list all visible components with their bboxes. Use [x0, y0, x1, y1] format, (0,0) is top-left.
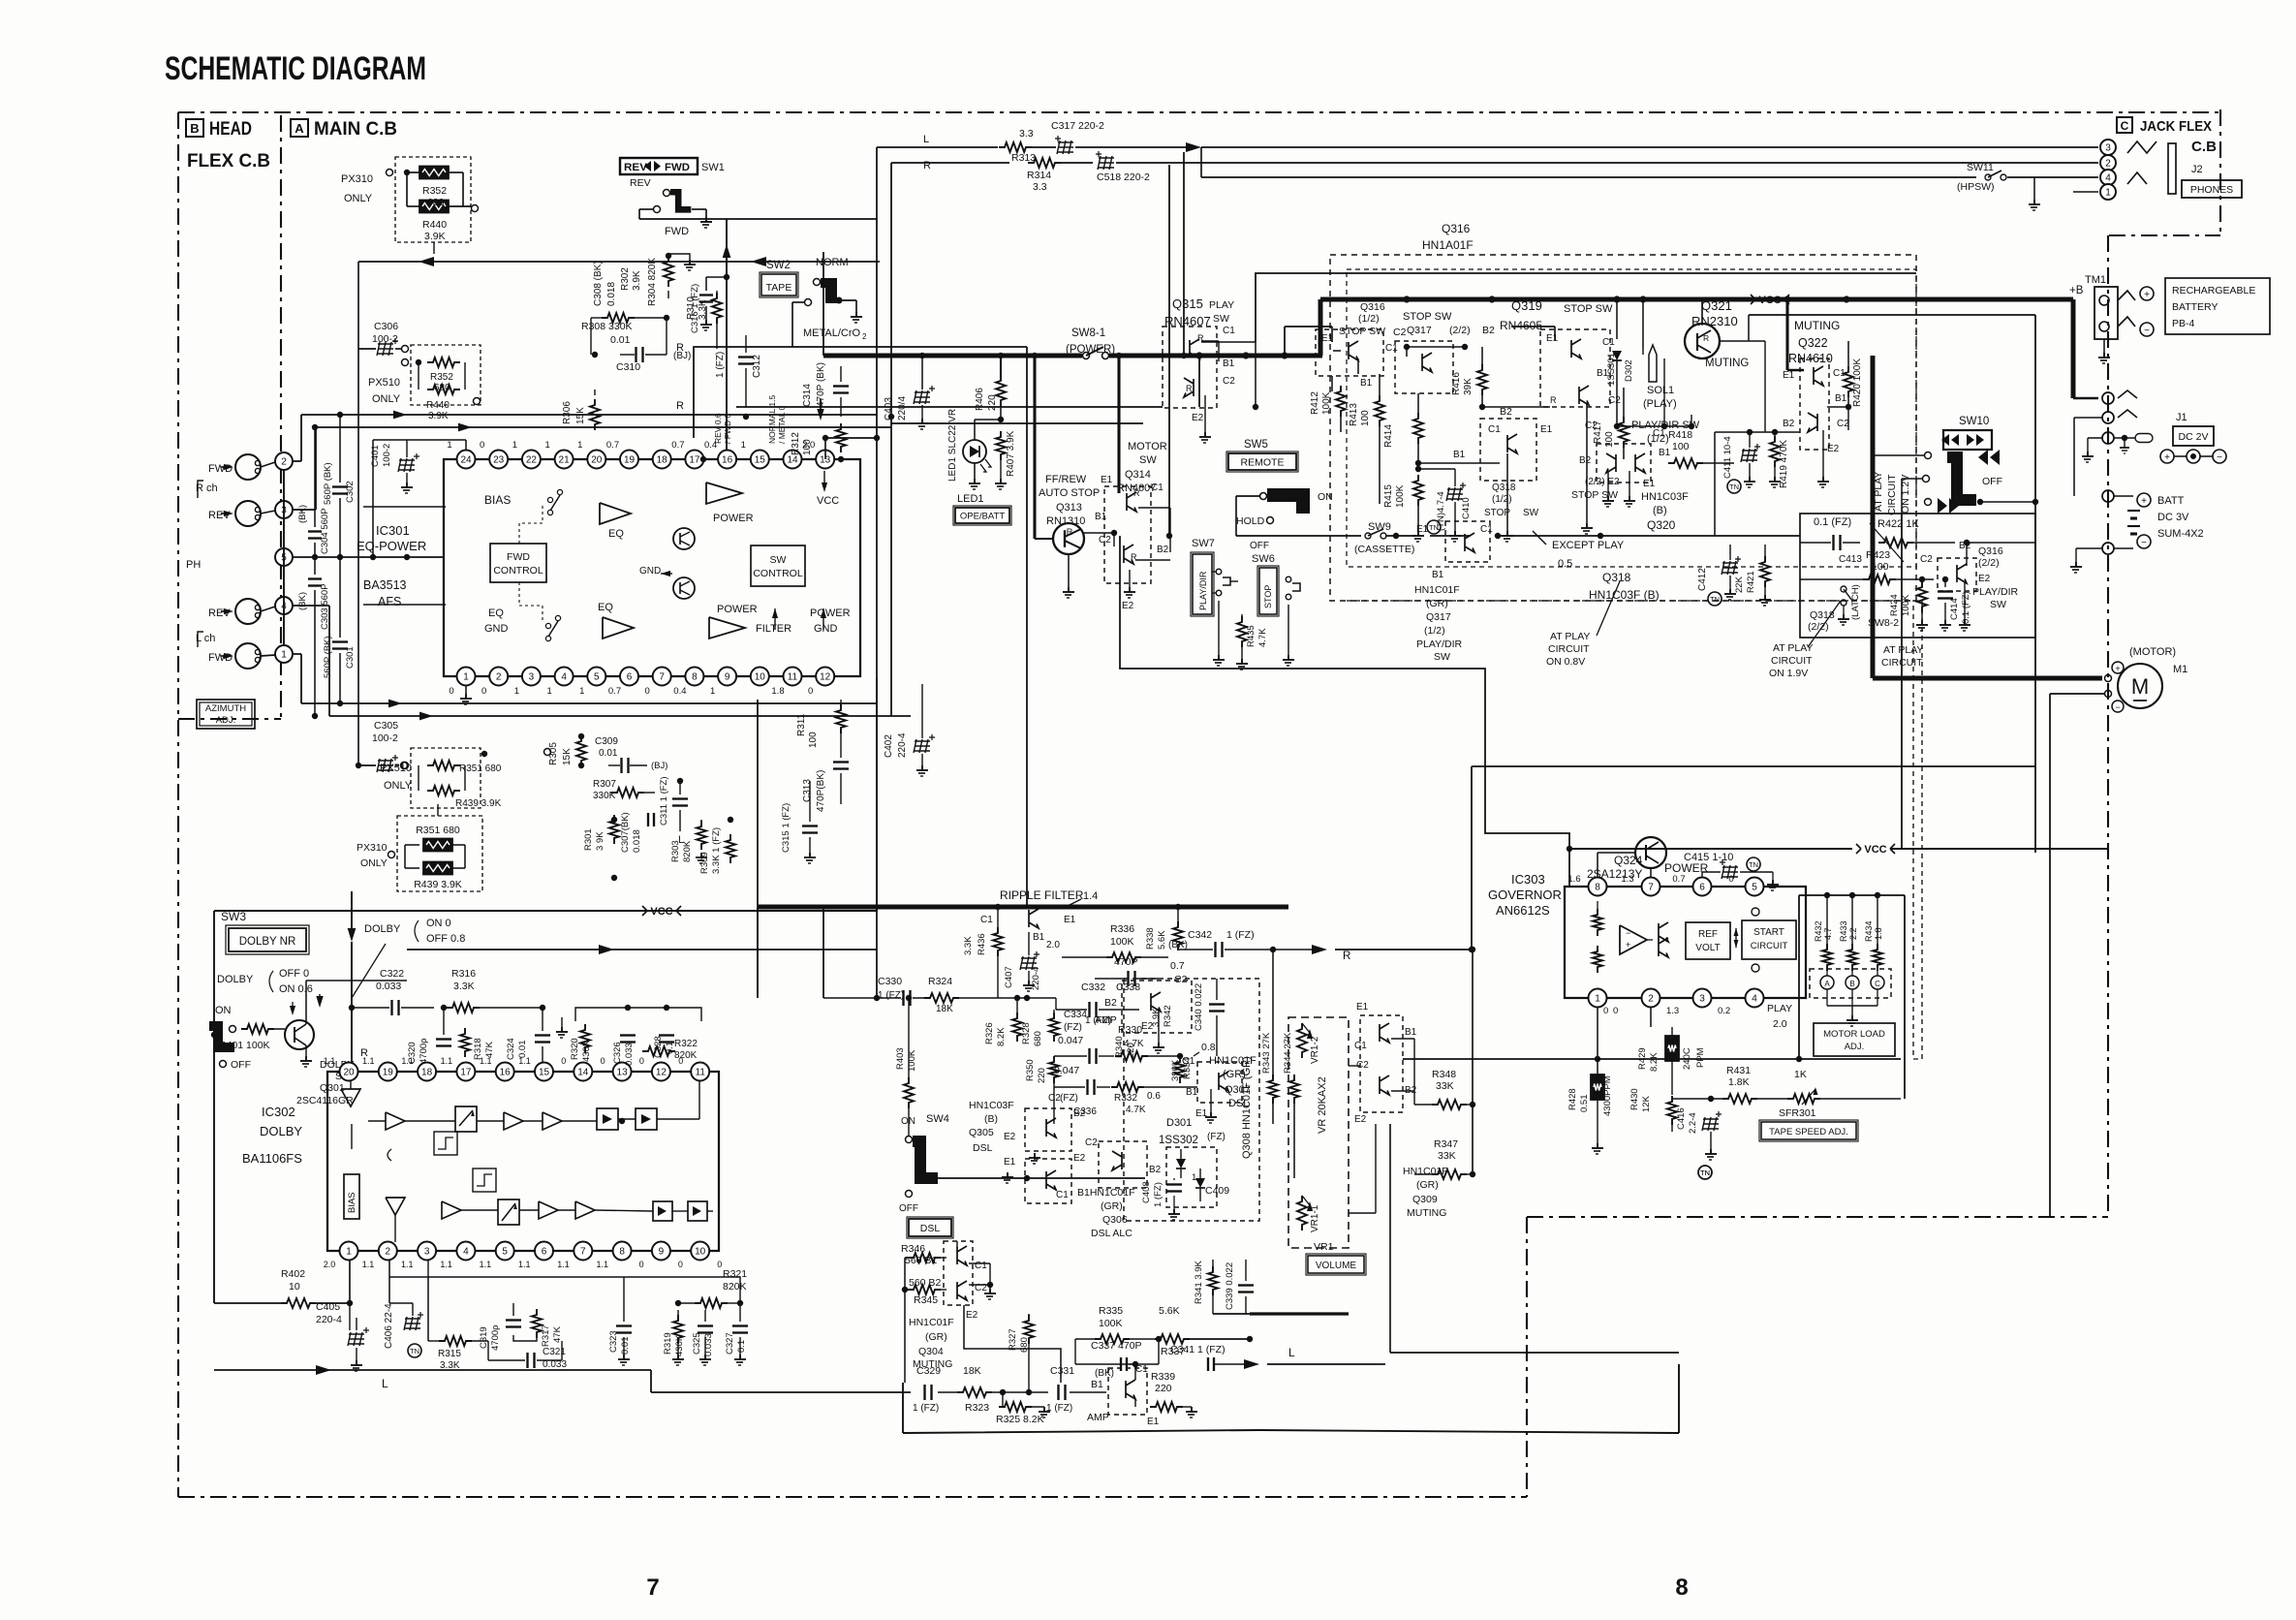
svg-text:B1: B1	[1091, 1379, 1103, 1390]
svg-text:C2: C2	[1393, 327, 1407, 338]
svg-text:R431: R431	[1726, 1065, 1751, 1076]
svg-text:B: B	[1849, 980, 1854, 988]
svg-text:4.7K: 4.7K	[1124, 1039, 1144, 1049]
wire x1520 vertical to y1093	[1472, 950, 1474, 1105]
svg-text:0.5: 0.5	[1558, 558, 1572, 570]
svg-text:RN4605: RN4605	[1500, 319, 1542, 332]
svg-text:(CASSETTE): (CASSETTE)	[1354, 544, 1414, 555]
svg-text:STOP SW: STOP SW	[1564, 303, 1613, 315]
IC302 internal wires lower	[351, 1174, 353, 1182]
svg-text:C325: C325	[692, 1332, 702, 1355]
svg-text:+: +	[2141, 496, 2147, 507]
svg-text:B1: B1	[1405, 1027, 1417, 1038]
VCC bracket top	[1751, 295, 1789, 304]
svg-text:Q317: Q317	[1407, 325, 1432, 336]
svg-text:19: 19	[624, 455, 636, 466]
svg-text:8: 8	[692, 672, 698, 683]
svg-text:(BK): (BK)	[297, 505, 308, 523]
svg-text:B1: B1	[1033, 932, 1045, 943]
svg-text:C2: C2	[1837, 419, 1849, 429]
svg-text:L: L	[382, 1377, 388, 1390]
svg-text:SW3: SW3	[221, 910, 246, 923]
svg-text:0.033: 0.033	[376, 981, 401, 992]
svg-text:ONLY: ONLY	[372, 393, 401, 405]
cap C304 560P	[314, 427, 316, 527]
svg-text:(LATCH): (LATCH)	[1850, 584, 1861, 620]
svg-text:220-4: 220-4	[1031, 967, 1041, 990]
svg-text:3.9K: 3.9K	[632, 270, 642, 291]
svg-text:REV: REV	[624, 162, 648, 173]
svg-text:560 B2: 560 B2	[909, 1277, 941, 1289]
svg-text:1: 1	[2105, 188, 2111, 199]
svg-text:13: 13	[617, 1068, 629, 1078]
svg-text:15: 15	[755, 455, 766, 466]
svg-text:A: A	[295, 121, 304, 136]
switch SW1 REV-FWD label box	[620, 158, 698, 174]
wire Q315 C1 right	[1201, 341, 1256, 343]
svg-text:C1: C1	[1385, 343, 1398, 354]
connector circles on board edge (DC jack chain)	[2102, 392, 2114, 404]
svg-text:0.01: 0.01	[610, 334, 631, 346]
cap C410 4.7-4	[1446, 483, 1466, 501]
svg-text:3.3K 1 (FZ): 3.3K 1 (FZ)	[711, 827, 722, 874]
svg-text:SW7: SW7	[1192, 538, 1215, 549]
svg-text:0.1 (FZ): 0.1 (FZ)	[1961, 591, 1971, 624]
svg-text:R423: R423	[1866, 549, 1890, 561]
svg-text:1SS302: 1SS302	[1159, 1135, 1198, 1146]
svg-text:220: 220	[1037, 1068, 1047, 1083]
svg-text:R439 3.9K: R439 3.9K	[414, 879, 462, 890]
svg-text:R327: R327	[1008, 1328, 1018, 1351]
svg-text:C518 220-2: C518 220-2	[1097, 171, 1150, 183]
svg-text:20: 20	[591, 455, 603, 466]
svg-text:Q319: Q319	[1511, 298, 1542, 313]
svg-text:100: 100	[802, 439, 813, 455]
svg-text:4700ρ: 4700ρ	[419, 1038, 429, 1064]
svg-text:E2: E2	[966, 1310, 978, 1321]
svg-text:ON 1.9V: ON 1.9V	[1769, 668, 1808, 679]
svg-text:820K: 820K	[674, 1050, 698, 1061]
switch SW8-2 LATCH	[1841, 586, 1846, 592]
svg-text:C302: C302	[345, 481, 356, 503]
svg-text:B1: B1	[1360, 378, 1373, 389]
svg-text:HEAD: HEAD	[209, 119, 252, 140]
wire L out arrow	[1244, 1359, 1259, 1369]
solenoid SOL1 PLAY	[1642, 299, 1644, 349]
svg-text:430K: 430K	[674, 1334, 685, 1356]
svg-text:CIRCUIT: CIRCUIT	[1548, 643, 1590, 655]
svg-text:R304 820K: R304 820K	[647, 258, 658, 306]
svg-text:C303 560P: C303 560P	[320, 583, 330, 630]
svg-text:C310: C310	[616, 361, 640, 373]
R line arrow to right	[407, 949, 877, 950]
resistor R419 470K	[1770, 436, 1780, 467]
svg-text:Q304: Q304	[918, 1346, 944, 1357]
IC302 pins top 20..11	[340, 1063, 358, 1081]
svg-text:(FZ): (FZ)	[1060, 1093, 1078, 1104]
IC303 pins top 8 7 6 5	[1589, 878, 1607, 896]
wire long feedback line y270	[358, 261, 880, 263]
resistor R322 820K	[642, 1046, 675, 1056]
svg-text:R302: R302	[620, 267, 631, 291]
svg-text:9: 9	[659, 1247, 665, 1258]
switch SW9 CASSETTE	[1236, 535, 1361, 537]
svg-text:AT PLAY: AT PLAY	[1883, 644, 1923, 656]
svg-text:R328: R328	[1021, 1022, 1032, 1044]
svg-text:PLAY: PLAY	[1767, 1003, 1792, 1014]
wire hline y1093	[1403, 1058, 1901, 1060]
svg-text:/ FWD 0: / FWD 0	[723, 414, 732, 444]
svg-text:AUTO STOP: AUTO STOP	[1039, 487, 1100, 499]
svg-text:Q301: Q301	[320, 1082, 345, 1094]
svg-text:C406 22-4: C406 22-4	[384, 1303, 394, 1349]
svg-text:R330: R330	[1118, 1024, 1142, 1036]
wire top to IC303 area	[1472, 765, 2035, 767]
ground pin1 IC301	[465, 686, 467, 694]
svg-text:18: 18	[421, 1068, 433, 1078]
svg-text:2.0: 2.0	[1046, 940, 1060, 950]
IC302 internal symbols lower row	[386, 1198, 405, 1215]
svg-text:B1: B1	[1186, 1087, 1198, 1098]
svg-text:HN1C01F: HN1C01F	[909, 1317, 954, 1328]
svg-text:R345: R345	[914, 1294, 938, 1306]
wire rail branch down at x1238	[1198, 356, 1200, 407]
junction TN circle	[1698, 1166, 1712, 1179]
svg-text:680: 680	[434, 383, 450, 393]
svg-text:4.7: 4.7	[1823, 927, 1833, 940]
IC301 EQ amp lower	[603, 617, 634, 639]
thick rail to motor	[1871, 356, 1876, 678]
svg-text:AFS: AFS	[378, 595, 401, 608]
svg-text:100: 100	[1360, 410, 1371, 426]
svg-text:JACK FLEX: JACK FLEX	[2140, 118, 2212, 135]
svg-text:1 (FZ): 1 (FZ)	[1226, 929, 1255, 941]
svg-text:560P (BK): 560P (BK)	[323, 636, 333, 678]
IC302 antenna stub	[351, 1124, 353, 1149]
svg-text:POWER: POWER	[713, 513, 754, 524]
svg-text:−: −	[1626, 928, 1630, 938]
svg-text:6: 6	[627, 672, 633, 683]
svg-text:CIRCUIT: CIRCUIT	[1771, 655, 1813, 667]
svg-text:0: 0	[480, 440, 484, 451]
svg-text:MOTOR LOAD: MOTOR LOAD	[1823, 1029, 1885, 1040]
svg-text:PLAY/DIR: PLAY/DIR	[1972, 586, 2018, 598]
svg-text:C.B: C.B	[2191, 139, 2217, 155]
svg-text:C322: C322	[380, 968, 404, 980]
svg-text:C401: C401	[370, 445, 381, 467]
svg-text:STOP: STOP	[1263, 585, 1273, 608]
svg-text:R306: R306	[562, 401, 573, 424]
section label C JACK FLEX C.B	[2117, 117, 2132, 133]
svg-text:1 (FZ): 1 (FZ)	[1046, 1403, 1072, 1414]
svg-text:0: 0	[449, 686, 453, 697]
svg-text:Q324: Q324	[1614, 854, 1643, 867]
svg-text:560P (BK): 560P (BK)	[323, 462, 333, 505]
dolby box bottom right vertical	[876, 678, 878, 911]
svg-text:VR1-1: VR1-1	[1310, 1204, 1320, 1232]
svg-text:2: 2	[2105, 159, 2111, 170]
svg-text:4.7K: 4.7K	[1126, 1105, 1146, 1115]
svg-text:R347: R347	[1434, 1138, 1458, 1150]
transistor Q301 dolby sw	[285, 1020, 314, 1049]
svg-text:ON 0: ON 0	[426, 918, 451, 929]
svg-text:19: 19	[383, 1068, 394, 1078]
resistor R318 47K	[460, 1028, 470, 1057]
svg-text:R428: R428	[1567, 1088, 1578, 1110]
svg-text:R341 3.9K: R341 3.9K	[1194, 1260, 1204, 1304]
svg-text:REF: REF	[1698, 929, 1718, 940]
svg-text:HN1C03F: HN1C03F	[969, 1100, 1014, 1111]
svg-text:3: 3	[1699, 994, 1705, 1005]
svg-text:PX510: PX510	[368, 377, 400, 389]
ground Q322 E2	[1822, 430, 1824, 477]
svg-text:STOP SW: STOP SW	[1571, 489, 1618, 501]
svg-text:GND: GND	[639, 566, 661, 576]
svg-text:IC301: IC301	[376, 523, 410, 538]
svg-text:OFF: OFF	[231, 1059, 251, 1071]
long line y420 from IC301 to Q315	[877, 406, 1163, 408]
svg-text:0: 0	[1603, 1006, 1608, 1016]
svg-text:0: 0	[639, 1260, 644, 1269]
svg-text:(GR): (GR)	[1426, 598, 1448, 609]
svg-text:C317 220-2: C317 220-2	[1051, 120, 1104, 132]
cap C302 560P(BK)	[339, 415, 341, 483]
svg-text:SW: SW	[1434, 651, 1450, 663]
svg-text:L ch: L ch	[196, 633, 215, 644]
svg-text:PX310: PX310	[341, 173, 373, 185]
svg-text:B2: B2	[1104, 997, 1117, 1009]
svg-text:1.3: 1.3	[1666, 1006, 1679, 1016]
svg-text:R436: R436	[977, 933, 987, 955]
dashed outline Q318 HN1C03F lower	[1347, 600, 1916, 602]
svg-text:R322: R322	[674, 1039, 698, 1049]
IC301 EQ amp upper	[600, 503, 631, 524]
svg-text:DOLBY: DOLBY	[364, 923, 401, 935]
long vertical x850 power	[822, 252, 824, 356]
svg-text:EXCEPT PLAY: EXCEPT PLAY	[1552, 540, 1625, 551]
svg-text:R352: R352	[422, 185, 447, 197]
svg-text:23: 23	[493, 455, 505, 466]
svg-text:1: 1	[514, 686, 519, 697]
cap C325 0.033	[698, 1324, 713, 1326]
svg-text:SOL1: SOL1	[1647, 385, 1674, 396]
svg-text:0.6: 0.6	[1147, 1091, 1161, 1102]
svg-text:VCC: VCC	[817, 495, 839, 507]
svg-text:Q318: Q318	[1602, 571, 1631, 584]
svg-text:ADJ.: ADJ.	[1845, 1042, 1865, 1052]
svg-text:Q316: Q316	[1360, 301, 1385, 313]
svg-text:VR 20KAX2: VR 20KAX2	[1317, 1076, 1328, 1134]
svg-text:C306: C306	[374, 321, 398, 332]
svg-text:C1: C1	[1602, 337, 1615, 348]
svg-text:R401 100K: R401 100K	[219, 1040, 270, 1051]
wire FWD down to IC301 pin16	[726, 219, 728, 459]
svg-text:TAPE: TAPE	[766, 282, 792, 294]
svg-text:GOVERNOR: GOVERNOR	[1488, 888, 1562, 902]
svg-text:R403: R403	[895, 1047, 906, 1070]
svg-text:C1: C1	[1151, 483, 1164, 493]
IC302 pins bottom 1..10	[340, 1242, 358, 1261]
resistor R319 430K	[673, 1315, 683, 1344]
svg-text:12: 12	[656, 1068, 667, 1078]
vertical pair x1207 x1222	[1168, 165, 1170, 536]
svg-text:M: M	[2131, 674, 2149, 699]
svg-text:TN: TN	[1729, 483, 1739, 491]
audio box bottom edge	[903, 1430, 1679, 1433]
svg-text:R407 3.9K: R407 3.9K	[1006, 430, 1016, 477]
svg-text:10: 10	[695, 1247, 706, 1258]
svg-text:3: 3	[424, 1247, 430, 1258]
svg-text:1: 1	[447, 440, 451, 451]
svg-text:(1/2): (1/2)	[1647, 433, 1669, 445]
svg-text:C410: C410	[1461, 497, 1472, 519]
svg-text:C342: C342	[1188, 929, 1212, 941]
svg-text:3 9K: 3 9K	[595, 831, 605, 851]
svg-text:B2: B2	[1149, 1165, 1162, 1175]
svg-text:R424: R424	[1889, 594, 1900, 616]
svg-text:C332: C332	[1081, 981, 1105, 993]
svg-text:B1: B1	[1453, 450, 1466, 460]
svg-text:C331: C331	[1050, 1365, 1074, 1377]
battery BATT DC 3V SUM-4X2	[2137, 493, 2151, 507]
svg-text:1: 1	[512, 440, 517, 451]
svg-text:B1: B1	[1432, 570, 1444, 580]
svg-text:5: 5	[594, 672, 600, 683]
svg-text:TAPE SPEED ADJ.: TAPE SPEED ADJ.	[1769, 1127, 1848, 1137]
svg-text:C2: C2	[1920, 554, 1933, 565]
svg-text:C: C	[2121, 119, 2129, 133]
svg-text:R325 8.2K: R325 8.2K	[996, 1414, 1044, 1425]
svg-text:1: 1	[346, 1247, 352, 1258]
svg-text:0.7: 0.7	[1672, 874, 1685, 885]
svg-text:470P: 470P	[1114, 956, 1138, 968]
IC302 internal symbols upper row	[341, 1089, 360, 1106]
svg-text:C412: C412	[1697, 568, 1708, 591]
svg-text:FWD: FWD	[665, 226, 689, 237]
svg-text:220-4: 220-4	[316, 1314, 342, 1325]
svg-text:17: 17	[689, 455, 700, 466]
svg-text:TN: TN	[410, 1347, 419, 1355]
svg-text:REV: REV	[630, 177, 651, 189]
svg-text:E1: E1	[1004, 1157, 1016, 1168]
jack flex connector circles	[2100, 140, 2116, 155]
svg-text:BATT: BATT	[2157, 495, 2185, 507]
svg-text:C408: C408	[1141, 1181, 1152, 1203]
svg-text:8: 8	[619, 1247, 625, 1258]
svg-text:0.047: 0.047	[1058, 1035, 1083, 1046]
junction dots near IC301	[592, 352, 598, 358]
svg-text:ONLY: ONLY	[360, 857, 388, 869]
svg-text:ADJ.: ADJ.	[216, 715, 236, 726]
resistor R401 100K	[241, 1024, 274, 1034]
svg-text:R: R	[1550, 395, 1557, 405]
svg-text:(MOTOR): (MOTOR)	[2129, 646, 2176, 658]
svg-text:DOLBY: DOLBY	[260, 1124, 302, 1138]
svg-text:C309: C309	[595, 736, 618, 747]
svg-text:R ch: R ch	[196, 483, 218, 494]
svg-text:C311 1 (FZ): C311 1 (FZ)	[659, 776, 669, 826]
IC303 pins bottom 1 2 3 4	[1589, 989, 1607, 1008]
cap C321 0.033	[526, 1353, 528, 1368]
svg-text:E2: E2	[1192, 413, 1204, 423]
svg-text:POWER: POWER	[717, 604, 758, 615]
svg-text:E1: E1	[1101, 475, 1113, 485]
svg-text:FLEX C.B: FLEX C.B	[187, 151, 270, 171]
svg-text:OFF: OFF	[1982, 476, 2002, 487]
svg-text:20: 20	[343, 1068, 355, 1078]
svg-text:R314: R314	[1027, 170, 1051, 181]
svg-text:FWD: FWD	[507, 551, 530, 563]
section label B HEAD FLEX C.B	[186, 119, 203, 137]
svg-text:R: R	[1343, 950, 1350, 962]
svg-text:STOP SW: STOP SW	[1403, 311, 1452, 323]
svg-text:R415: R415	[1383, 484, 1394, 508]
resistor R407 3.9K	[996, 431, 1006, 460]
svg-text:C1: C1	[1056, 1190, 1069, 1200]
svg-text:(GR): (GR)	[925, 1331, 947, 1343]
svg-text:TN: TN	[1700, 1168, 1710, 1177]
wire SW1 to bus	[638, 209, 640, 219]
svg-text:−: −	[2217, 452, 2222, 463]
svg-text:+B: +B	[2069, 285, 2084, 296]
svg-text:+: +	[2144, 290, 2150, 300]
svg-text:1.1: 1.1	[441, 1056, 453, 1066]
svg-text:POWER: POWER	[810, 607, 851, 619]
svg-text:C1: C1	[975, 1261, 987, 1271]
svg-text:R339: R339	[1151, 1371, 1175, 1383]
resistor R320 430K	[580, 1024, 590, 1053]
thick rail jog to +B	[1319, 299, 1323, 356]
svg-text:E1: E1	[1546, 333, 1559, 344]
wires J1 chain	[2074, 417, 2102, 419]
svg-text:0.7: 0.7	[671, 440, 684, 451]
svg-text:E1: E1	[1783, 370, 1795, 381]
svg-text:E2: E2	[1122, 601, 1134, 611]
svg-text:680: 680	[427, 197, 445, 208]
svg-text:EQ: EQ	[598, 602, 613, 613]
svg-text:R433: R433	[1839, 920, 1848, 942]
svg-text:16: 16	[500, 1068, 512, 1078]
svg-text:OFF 0: OFF 0	[279, 968, 309, 980]
IC IC301 EQ-POWER BA3513 outline	[444, 459, 860, 676]
svg-text:C2: C2	[1085, 1137, 1098, 1148]
wire L output bottom	[213, 1303, 215, 1370]
svg-text:C337 470P: C337 470P	[1091, 1340, 1142, 1352]
svg-text:R: R	[1133, 488, 1140, 498]
svg-text:B2: B2	[1073, 1108, 1086, 1119]
svg-text:REV: REV	[208, 510, 231, 521]
svg-text:1K: 1K	[1794, 1069, 1807, 1080]
svg-text:BATTERY: BATTERY	[2172, 301, 2218, 313]
svg-text:11: 11	[696, 1068, 706, 1078]
svg-text:PB-4: PB-4	[2172, 318, 2195, 329]
line SW1 bus to stop farm	[639, 218, 1169, 220]
svg-text:VR1-2: VR1-2	[1310, 1036, 1320, 1064]
svg-text:C315 1 (FZ): C315 1 (FZ)	[781, 803, 791, 853]
svg-text:LED1: LED1	[957, 493, 984, 505]
svg-text:C405: C405	[316, 1301, 340, 1313]
svg-text:B1HN1C01F: B1HN1C01F	[1077, 1187, 1135, 1199]
jack line 4 with switch SW11	[1201, 176, 1976, 178]
azimuth adj label	[197, 700, 255, 729]
svg-text:EQ: EQ	[488, 607, 504, 619]
svg-text:15K: 15K	[575, 407, 586, 424]
svg-text:C2: C2	[1608, 395, 1621, 406]
svg-text:AZIMUTH: AZIMUTH	[205, 703, 246, 714]
IC301 internal transistors	[673, 528, 695, 549]
svg-text:MUTING: MUTING	[913, 1358, 952, 1370]
svg-text:−: −	[2115, 702, 2120, 712]
